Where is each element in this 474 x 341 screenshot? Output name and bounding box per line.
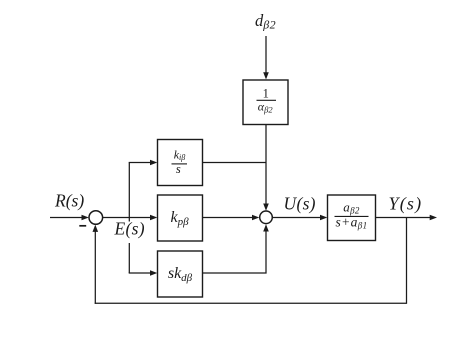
wire k_ib output to node at x=266 bbox=[203, 162, 267, 164]
minus sign at S1 bbox=[79, 225, 86, 227]
wire k_pb output to S2 bbox=[203, 217, 254, 219]
label U(s) bbox=[284, 194, 316, 214]
block G1: a_b2/(s+a_b1) (plant) bbox=[328, 195, 376, 241]
wire S1 to k_pb block bbox=[103, 217, 152, 219]
summing junction S2 bbox=[260, 211, 273, 224]
svg-text:dβ2: dβ2 bbox=[255, 11, 276, 31]
wire 1/alpha_b2 to summing junction S2 bbox=[265, 125, 267, 205]
wire feedback up into S1 bbox=[94, 231, 96, 304]
svg-text:Y(s): Y(s) bbox=[389, 194, 423, 215]
summing junction S1 bbox=[89, 211, 103, 225]
svg-text:E(s): E(s) bbox=[114, 219, 145, 239]
svg-text:R(s): R(s) bbox=[54, 191, 84, 211]
label d_b2 (disturbance input) bbox=[255, 11, 276, 31]
svg-text:skdβ: skdβ bbox=[168, 265, 193, 284]
block K3: sk_db (derivative gain) bbox=[158, 251, 203, 297]
arrowhead into left of S1 bbox=[82, 215, 89, 221]
svg-text:kiβ: kiβ bbox=[174, 148, 186, 163]
arrowhead into sk_db bbox=[150, 270, 157, 276]
label R(s) bbox=[54, 191, 84, 211]
wire branch to k_ib block bbox=[129, 162, 152, 164]
node feedback tap, wire down bbox=[406, 218, 408, 304]
arrowhead into k_pb bbox=[150, 215, 157, 221]
svg-text:aβ2: aβ2 bbox=[343, 200, 360, 216]
svg-text:αβ2: αβ2 bbox=[258, 100, 274, 115]
wire branch to sk_db block bbox=[129, 272, 152, 274]
arrowhead into plant block bbox=[320, 215, 327, 221]
arrowhead into top of 1/alpha_b2 bbox=[263, 72, 269, 79]
arrowhead into bottom of S1 bbox=[93, 225, 99, 232]
wire S2 to plant block bbox=[273, 217, 322, 219]
svg-text:1: 1 bbox=[263, 87, 269, 101]
block K1: k_ib / s (integral gain) bbox=[158, 140, 203, 186]
arrowhead into left of S2 bbox=[252, 215, 259, 221]
arrowhead into k_ib bbox=[150, 160, 157, 166]
wire d_b2 to block 1/alpha_b2 bbox=[265, 36, 267, 73]
wire feedback bottom run bbox=[95, 302, 407, 304]
arrowhead into top of S2 bbox=[263, 204, 269, 211]
wire input R(s) to summing junction S1 bbox=[50, 217, 83, 219]
label E(s) bbox=[112, 219, 146, 244]
arrowhead into bottom of S2 bbox=[263, 224, 269, 231]
wire plant output to Y(s) arrow bbox=[376, 217, 431, 219]
arrowhead at output Y(s) bbox=[430, 215, 437, 221]
label Y(s) bbox=[389, 194, 423, 215]
svg-text:kpβ: kpβ bbox=[170, 209, 189, 228]
block U1: 1/alpha_b2 bbox=[243, 80, 288, 125]
wire sk_db output then up to S2 bbox=[203, 231, 267, 274]
svg-text:U(s): U(s) bbox=[284, 194, 316, 214]
node branch of E(s), vertical wire bbox=[128, 163, 130, 274]
block K2: k_pb (proportional gain) bbox=[158, 195, 203, 241]
